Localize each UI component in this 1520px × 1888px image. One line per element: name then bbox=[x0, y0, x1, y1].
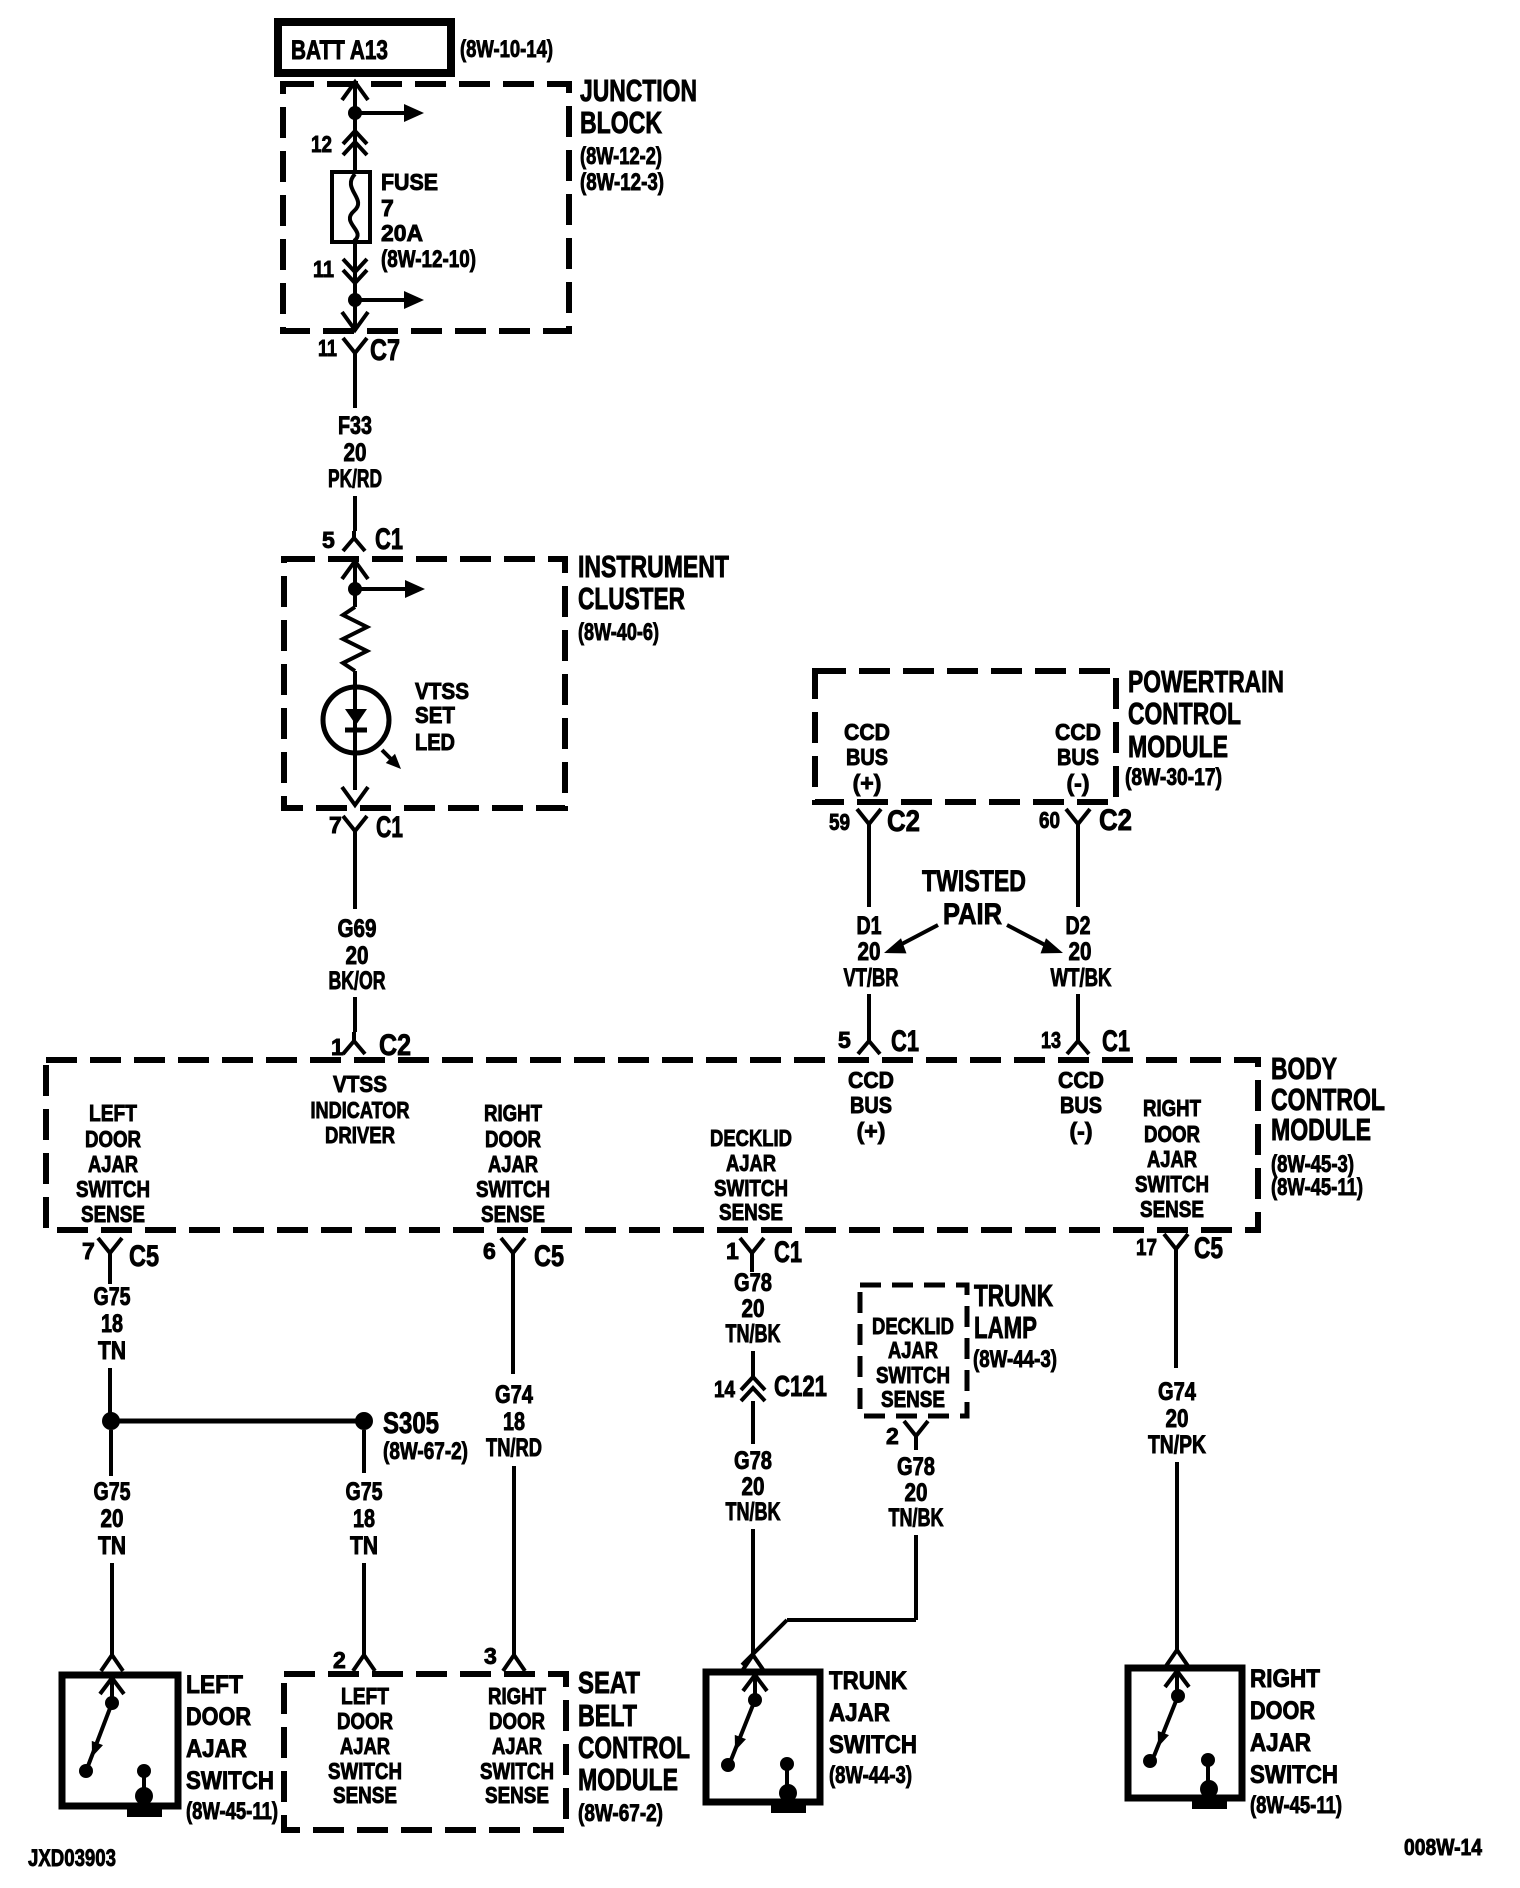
svg-text:RIGHT: RIGHT bbox=[488, 1683, 546, 1709]
svg-text:VTSS: VTSS bbox=[415, 678, 469, 704]
svg-text:SENSE: SENSE bbox=[481, 1201, 545, 1227]
wire label D2 20 WT/BK bbox=[1051, 912, 1112, 992]
svg-text:BATT A13: BATT A13 bbox=[291, 35, 388, 65]
svg-text:G75: G75 bbox=[94, 1478, 131, 1506]
svg-text:5: 5 bbox=[322, 527, 335, 553]
svg-text:RIGHT: RIGHT bbox=[484, 1100, 542, 1126]
svg-text:AJAR: AJAR bbox=[88, 1151, 138, 1177]
svg-text:C7: C7 bbox=[370, 334, 400, 367]
arrow into instrument cluster bbox=[342, 561, 368, 579]
svg-text:60: 60 bbox=[1039, 807, 1060, 833]
wire G74 20 upper segment bbox=[1174, 1266, 1178, 1368]
svg-text:BODY: BODY bbox=[1271, 1051, 1337, 1086]
trunk switch stub wire bbox=[753, 1675, 757, 1697]
svg-text:7: 7 bbox=[381, 195, 394, 221]
left door switch lower contact dot bbox=[79, 1764, 93, 1778]
svg-text:DRIVER: DRIVER bbox=[325, 1122, 395, 1148]
svg-text:(8W-12-10): (8W-12-10) bbox=[381, 246, 476, 273]
wire G78 lamp branch vertical bbox=[914, 1535, 918, 1620]
svg-text:WT/BK: WT/BK bbox=[1051, 964, 1112, 992]
svg-text:C1: C1 bbox=[1102, 1025, 1130, 1058]
svg-text:3: 3 bbox=[484, 1643, 497, 1669]
connector chevrons pin 12 bbox=[343, 131, 367, 144]
svg-text:BUS: BUS bbox=[1057, 744, 1099, 770]
trunk switch lower contact dot bbox=[721, 1758, 735, 1772]
svg-text:008W-14: 008W-14 bbox=[1404, 1834, 1482, 1860]
connector fork at right door ajar switch bbox=[1166, 1650, 1188, 1666]
svg-text:TN: TN bbox=[98, 1532, 126, 1560]
svg-text:G78: G78 bbox=[734, 1447, 772, 1475]
wire node to resistor bbox=[353, 589, 357, 607]
svg-text:DECKLID: DECKLID bbox=[872, 1313, 954, 1339]
wire label D1 20 VT/BR bbox=[844, 912, 899, 992]
svg-text:AJAR: AJAR bbox=[340, 1733, 390, 1759]
wire G74 18 lower segment bbox=[512, 1466, 516, 1655]
svg-text:CONTROL: CONTROL bbox=[1128, 696, 1241, 731]
wire segment to C121 bbox=[751, 1351, 755, 1377]
right door switch stub wire bbox=[1175, 1671, 1179, 1693]
svg-text:VTSS: VTSS bbox=[333, 1071, 387, 1097]
svg-text:C121: C121 bbox=[774, 1371, 827, 1403]
branch arrow right (bottom) bbox=[355, 298, 406, 302]
resistor (cluster dropping resistor) bbox=[343, 607, 367, 671]
arrow out of junction block bbox=[342, 312, 368, 330]
left door switch ground dot bbox=[135, 1787, 153, 1805]
wire label G78 20 TN/BK (upper) bbox=[726, 1269, 781, 1348]
arrow into BATT A13 bbox=[342, 82, 368, 100]
fuse F7 box bbox=[332, 172, 370, 242]
wire G74 18 upper segment bbox=[511, 1270, 515, 1374]
trunk switch common contact dot bbox=[748, 1693, 762, 1707]
splice bus wire to S305 bbox=[119, 1419, 356, 1424]
wire from BATT A13 into junction block bbox=[353, 86, 357, 112]
right door ajar switch name label bbox=[1250, 1665, 1342, 1819]
svg-text:AJAR: AJAR bbox=[492, 1733, 542, 1759]
svg-text:CCD: CCD bbox=[1055, 719, 1101, 745]
branch arrow right in instrument cluster bbox=[355, 587, 407, 591]
wire G75 18 to splice bbox=[108, 1368, 112, 1413]
svg-text:AJAR: AJAR bbox=[726, 1150, 776, 1176]
wire D1 upper segment bbox=[867, 843, 871, 907]
connector pin 2 trunk lamp bbox=[886, 1421, 928, 1450]
trunk switch output contact dot bbox=[780, 1757, 794, 1771]
svg-text:SWITCH: SWITCH bbox=[480, 1758, 554, 1784]
trunk switch lever bbox=[731, 1700, 755, 1760]
wire G75 18 lower segment (S305 branch) bbox=[362, 1563, 366, 1655]
trunk lamp internal label DECKLID AJAR SWITCH SENSE bbox=[872, 1313, 954, 1412]
junction block name label bbox=[580, 73, 697, 196]
svg-text:20: 20 bbox=[1166, 1405, 1189, 1433]
svg-text:(+): (+) bbox=[857, 1118, 886, 1144]
BCM internal label RIGHT DOOR AJAR SWITCH SENSE (right) bbox=[1135, 1095, 1209, 1222]
svg-text:C5: C5 bbox=[534, 1240, 564, 1273]
wire G75 18 upper segment bbox=[108, 1270, 112, 1284]
wire label G75 18 TN (S305 branch) bbox=[346, 1478, 383, 1560]
svg-text:SWITCH: SWITCH bbox=[186, 1767, 274, 1795]
svg-text:SWITCH: SWITCH bbox=[328, 1758, 402, 1784]
wire label G74 20 TN/PK bbox=[1148, 1378, 1206, 1459]
seat belt control module name label bbox=[578, 1665, 690, 1827]
BCM internal label LEFT DOOR AJAR SWITCH SENSE bbox=[76, 1100, 150, 1227]
svg-text:SWITCH: SWITCH bbox=[476, 1176, 550, 1202]
svg-text:MODULE: MODULE bbox=[1271, 1112, 1371, 1147]
BCM internal label CCD BUS (+) bbox=[848, 1067, 894, 1144]
powertrain control module name label bbox=[1125, 664, 1284, 791]
svg-text:11: 11 bbox=[313, 256, 334, 282]
wire D1 lower segment bbox=[867, 994, 871, 1030]
svg-text:(8W-45-11): (8W-45-11) bbox=[186, 1798, 278, 1825]
svg-text:CCD: CCD bbox=[1058, 1067, 1104, 1093]
trunk switch ground dot bbox=[779, 1784, 797, 1802]
svg-text:(8W-30-17): (8W-30-17) bbox=[1125, 764, 1222, 791]
svg-text:AJAR: AJAR bbox=[829, 1699, 890, 1727]
svg-text:C2: C2 bbox=[887, 805, 920, 838]
body control module name label bbox=[1271, 1051, 1385, 1201]
arrow into right door ajar switch bbox=[1165, 1671, 1189, 1687]
svg-text:(8W-44-3): (8W-44-3) bbox=[973, 1346, 1057, 1373]
svg-text:BK/OR: BK/OR bbox=[329, 967, 386, 995]
LED cathode bar bbox=[345, 728, 367, 733]
connector C1 pin 5 (BCM CCD+) bbox=[838, 1025, 919, 1058]
svg-text:SEAT: SEAT bbox=[578, 1665, 640, 1700]
wire label G69 20 BK/OR bbox=[329, 915, 386, 995]
svg-text:S305: S305 bbox=[383, 1407, 439, 1440]
wire D2 lower segment bbox=[1076, 994, 1080, 1030]
svg-text:VT/BR: VT/BR bbox=[844, 964, 899, 992]
svg-text:BUS: BUS bbox=[1060, 1092, 1102, 1118]
twisted pair pointer arrow right bbox=[1007, 925, 1047, 946]
BCM internal label DECKLID AJAR SWITCH SENSE bbox=[710, 1125, 792, 1225]
connector C121 pin 14 bbox=[714, 1371, 827, 1403]
svg-text:SENSE: SENSE bbox=[81, 1201, 145, 1227]
svg-text:C1: C1 bbox=[376, 811, 403, 844]
svg-text:TN/PK: TN/PK bbox=[1148, 1431, 1206, 1459]
svg-text:POWERTRAIN: POWERTRAIN bbox=[1128, 664, 1284, 699]
wire G75 20 lower segment bbox=[110, 1563, 114, 1655]
svg-text:TRUNK: TRUNK bbox=[974, 1278, 1053, 1313]
svg-text:BELT: BELT bbox=[578, 1698, 637, 1733]
LED diode triangle bbox=[345, 709, 367, 725]
right door switch ground lead bbox=[1206, 1760, 1210, 1785]
svg-text:G74: G74 bbox=[1158, 1378, 1196, 1406]
connector C5 pin 7 bbox=[82, 1238, 159, 1273]
trunk ajar switch box bbox=[706, 1672, 820, 1802]
svg-text:TN/RD: TN/RD bbox=[486, 1434, 542, 1462]
connector C5 pin 6 bbox=[483, 1238, 564, 1273]
svg-text:BUS: BUS bbox=[846, 744, 888, 770]
arrow into trunk ajar switch bbox=[743, 1675, 767, 1691]
trunk ajar switch name label bbox=[829, 1667, 917, 1789]
svg-text:SENSE: SENSE bbox=[881, 1386, 945, 1412]
connector fork at left door ajar switch bbox=[101, 1655, 123, 1671]
svg-text:(+): (+) bbox=[853, 770, 882, 796]
right door ajar switch box bbox=[1128, 1668, 1242, 1798]
left door switch common contact dot bbox=[105, 1696, 119, 1710]
svg-text:AJAR: AJAR bbox=[186, 1735, 247, 1763]
svg-text:SWITCH: SWITCH bbox=[1250, 1761, 1338, 1789]
svg-text:(-): (-) bbox=[1070, 1118, 1093, 1144]
wire G75 18 from S305 upper segment bbox=[362, 1430, 366, 1473]
svg-text:TWISTED: TWISTED bbox=[922, 865, 1026, 898]
svg-text:SENSE: SENSE bbox=[1140, 1196, 1204, 1222]
svg-text:LEFT: LEFT bbox=[186, 1671, 243, 1699]
wire label F33 20 PK/RD bbox=[328, 412, 382, 493]
instrument cluster module box bbox=[284, 559, 565, 808]
wire G78 lamp branch diagonal to trunk switch bbox=[742, 1620, 787, 1665]
instrument cluster name label bbox=[578, 549, 729, 646]
svg-text:20: 20 bbox=[742, 1295, 765, 1323]
svg-text:JXD03903: JXD03903 bbox=[28, 1845, 116, 1872]
fuse value label FUSE 7 20A (8W-12-10) bbox=[381, 169, 476, 273]
svg-text:F33: F33 bbox=[338, 412, 372, 440]
svg-text:C2: C2 bbox=[1099, 804, 1132, 837]
svg-text:LED: LED bbox=[415, 729, 455, 755]
connector C1 pin 1 bbox=[726, 1236, 802, 1270]
svg-text:AJAR: AJAR bbox=[1147, 1146, 1197, 1172]
wire resistor to LED bbox=[353, 671, 357, 790]
svg-text:(8W-67-2): (8W-67-2) bbox=[383, 1438, 468, 1465]
trunk lamp name label bbox=[973, 1278, 1057, 1373]
svg-text:SWITCH: SWITCH bbox=[76, 1176, 150, 1202]
svg-text:20: 20 bbox=[344, 439, 367, 467]
LED label VTSS SET LED bbox=[415, 678, 469, 755]
left door ajar switch box bbox=[62, 1675, 178, 1806]
svg-text:DOOR: DOOR bbox=[186, 1703, 251, 1731]
PCM internal label CCD BUS (-) bbox=[1055, 719, 1101, 796]
svg-text:SWITCH: SWITCH bbox=[829, 1731, 917, 1759]
svg-text:14: 14 bbox=[714, 1376, 735, 1402]
svg-text:C1: C1 bbox=[891, 1025, 919, 1058]
svg-text:(8W-40-6): (8W-40-6) bbox=[578, 619, 659, 646]
svg-text:SWITCH: SWITCH bbox=[1135, 1171, 1209, 1197]
wire G78 to trunk ajar switch bbox=[751, 1529, 755, 1655]
power source box BATT A13 bbox=[278, 22, 451, 73]
svg-text:20: 20 bbox=[101, 1505, 124, 1533]
svg-text:11: 11 bbox=[318, 335, 337, 361]
svg-text:5: 5 bbox=[838, 1027, 851, 1053]
wire G78 upper segment (pin1 C1) bbox=[750, 1270, 754, 1272]
wire G78 lamp branch horizontal bbox=[787, 1618, 916, 1622]
connector C1 pin 13 (BCM CCD-) bbox=[1041, 1025, 1130, 1058]
svg-text:TN: TN bbox=[98, 1337, 126, 1365]
connector chevrons pin 11 bbox=[343, 259, 367, 272]
svg-text:(8W-67-2): (8W-67-2) bbox=[578, 1800, 663, 1827]
left door ajar switch name label bbox=[186, 1671, 278, 1825]
arrow out of instrument cluster bbox=[342, 787, 368, 805]
wire G74 20 lower segment bbox=[1175, 1462, 1179, 1650]
connector C2 pin 59 bbox=[829, 805, 920, 843]
svg-text:20: 20 bbox=[346, 942, 369, 970]
left door switch stub wire bbox=[110, 1678, 114, 1700]
splice S305 dot bbox=[355, 1412, 373, 1430]
svg-text:SWITCH: SWITCH bbox=[876, 1362, 950, 1388]
svg-text:MODULE: MODULE bbox=[578, 1762, 678, 1797]
svg-text:MODULE: MODULE bbox=[1128, 729, 1228, 764]
svg-text:LEFT: LEFT bbox=[341, 1683, 389, 1709]
wire label G78 20 TN/BK (middle) bbox=[726, 1447, 781, 1526]
splice node dot left bbox=[102, 1412, 120, 1430]
svg-text:D2: D2 bbox=[1066, 912, 1091, 940]
svg-text:G75: G75 bbox=[94, 1283, 131, 1311]
wire G69 lower segment bbox=[353, 997, 357, 1032]
connector C2 pin 60 bbox=[1039, 804, 1132, 843]
svg-text:CCD: CCD bbox=[848, 1067, 894, 1093]
svg-text:BUS: BUS bbox=[850, 1092, 892, 1118]
svg-text:JUNCTION: JUNCTION bbox=[580, 73, 697, 108]
junction block module box bbox=[283, 84, 569, 331]
svg-text:17: 17 bbox=[1136, 1234, 1157, 1260]
node splice dot in junction block (bottom) bbox=[348, 293, 362, 307]
svg-text:20: 20 bbox=[1069, 938, 1092, 966]
connector C1 pin 7 bbox=[329, 811, 403, 848]
svg-text:INSTRUMENT: INSTRUMENT bbox=[578, 549, 729, 584]
svg-text:(8W-45-11): (8W-45-11) bbox=[1250, 1792, 1342, 1819]
svg-text:DOOR: DOOR bbox=[85, 1126, 141, 1152]
svg-text:SENSE: SENSE bbox=[719, 1199, 783, 1225]
svg-text:AJAR: AJAR bbox=[488, 1151, 538, 1177]
wire label G75 20 TN bbox=[94, 1478, 131, 1560]
svg-text:DOOR: DOOR bbox=[489, 1708, 545, 1734]
svg-text:D1: D1 bbox=[857, 912, 882, 940]
svg-text:DOOR: DOOR bbox=[1250, 1697, 1315, 1725]
wire junction dot to fuse bbox=[353, 113, 357, 172]
svg-text:C5: C5 bbox=[1194, 1232, 1223, 1265]
trunk lamp module box (decklid ajar switch sense) bbox=[860, 1285, 967, 1416]
svg-text:6: 6 bbox=[483, 1238, 496, 1264]
connector fork pin 2 seat belt module bbox=[333, 1647, 375, 1673]
left door switch ground lead bbox=[142, 1771, 146, 1793]
svg-text:SENSE: SENSE bbox=[333, 1782, 397, 1808]
svg-text:G69: G69 bbox=[338, 915, 377, 943]
BCM internal label RIGHT DOOR AJAR SWITCH SENSE (left) bbox=[476, 1100, 550, 1227]
twisted pair pointer arrow left bbox=[898, 925, 938, 946]
svg-text:G74: G74 bbox=[495, 1381, 533, 1409]
fuse F7 element wavy line bbox=[350, 174, 358, 241]
ground bar (left door switch) bbox=[127, 1809, 162, 1817]
LED light emission arrow bbox=[382, 750, 393, 761]
wire entry to node bbox=[353, 561, 357, 589]
svg-text:CCD: CCD bbox=[844, 719, 890, 745]
svg-text:1: 1 bbox=[331, 1034, 344, 1060]
svg-text:C5: C5 bbox=[129, 1240, 159, 1273]
svg-text:SWITCH: SWITCH bbox=[714, 1175, 788, 1201]
connector fork at trunk ajar switch bbox=[742, 1655, 764, 1671]
svg-text:1: 1 bbox=[726, 1238, 739, 1264]
svg-text:20: 20 bbox=[742, 1473, 765, 1501]
left door switch output contact dot bbox=[137, 1764, 151, 1778]
wire F33 upper segment bbox=[353, 370, 357, 408]
svg-text:LAMP: LAMP bbox=[974, 1310, 1037, 1345]
svg-text:LEFT: LEFT bbox=[89, 1100, 137, 1126]
BCM internal label VTSS INDICATOR DRIVER bbox=[311, 1071, 410, 1148]
svg-text:FUSE: FUSE bbox=[381, 169, 438, 195]
VTSS SET LED circle bbox=[323, 687, 389, 753]
PCM internal label CCD BUS (+) bbox=[844, 719, 890, 796]
svg-text:59: 59 bbox=[829, 809, 850, 835]
svg-text:AJAR: AJAR bbox=[1250, 1729, 1311, 1757]
body control module box bbox=[46, 1060, 1258, 1230]
svg-text:(-): (-) bbox=[1067, 770, 1090, 796]
branch arrow right (top) bbox=[355, 111, 406, 115]
node splice dot in junction block (top) bbox=[348, 106, 362, 120]
TWISTED PAIR note bbox=[922, 865, 1026, 931]
wire D2 upper segment bbox=[1076, 843, 1080, 907]
svg-text:SENSE: SENSE bbox=[485, 1782, 549, 1808]
connector fork pin 3 seat belt module bbox=[484, 1643, 525, 1671]
svg-text:(8W-44-3): (8W-44-3) bbox=[829, 1762, 912, 1789]
wire G69 upper segment bbox=[353, 848, 357, 909]
wire F33 lower segment bbox=[353, 496, 357, 531]
svg-text:TN/BK: TN/BK bbox=[726, 1498, 781, 1526]
connector C2 pin 1 (body control module) bbox=[331, 1029, 411, 1062]
svg-text:RIGHT: RIGHT bbox=[1143, 1095, 1201, 1121]
right door switch output contact dot bbox=[1201, 1753, 1215, 1767]
svg-text:(8W-12-2): (8W-12-2) bbox=[580, 143, 662, 170]
svg-text:(8W-12-3): (8W-12-3) bbox=[580, 169, 664, 196]
svg-text:INDICATOR: INDICATOR bbox=[311, 1097, 410, 1123]
trunk switch ground lead bbox=[785, 1764, 789, 1789]
svg-text:CONTROL: CONTROL bbox=[578, 1730, 690, 1765]
svg-text:2: 2 bbox=[886, 1423, 899, 1449]
svg-text:20: 20 bbox=[858, 938, 881, 966]
svg-text:2: 2 bbox=[333, 1647, 346, 1673]
wire label G78 20 TN/BK (lamp branch) bbox=[889, 1453, 944, 1532]
right door switch ground dot bbox=[1200, 1780, 1218, 1798]
svg-text:TN/BK: TN/BK bbox=[889, 1504, 944, 1532]
splice S305 label bbox=[383, 1407, 468, 1465]
arrow into left door ajar switch bbox=[100, 1678, 124, 1694]
svg-text:PAIR: PAIR bbox=[943, 898, 1002, 931]
svg-text:DOOR: DOOR bbox=[1144, 1121, 1200, 1147]
svg-text:7: 7 bbox=[82, 1238, 95, 1264]
svg-text:(8W-45-11): (8W-45-11) bbox=[1271, 1174, 1363, 1201]
seat belt control module box bbox=[284, 1674, 566, 1830]
svg-text:G78: G78 bbox=[897, 1453, 935, 1481]
left door switch lever bbox=[88, 1703, 112, 1766]
wire label G74 18 TN/RD bbox=[486, 1381, 542, 1462]
wire G75 20 upper segment bbox=[109, 1430, 113, 1476]
svg-text:SET: SET bbox=[415, 702, 455, 728]
svg-text:12: 12 bbox=[311, 131, 332, 157]
svg-text:CLUSTER: CLUSTER bbox=[578, 581, 685, 616]
ground bar (right door switch) bbox=[1192, 1801, 1227, 1809]
ground bar (trunk switch) bbox=[771, 1805, 806, 1813]
svg-text:18: 18 bbox=[353, 1505, 375, 1533]
svg-text:20A: 20A bbox=[381, 220, 423, 246]
svg-text:C1: C1 bbox=[774, 1236, 802, 1269]
wire label G75 18 TN bbox=[94, 1283, 131, 1365]
connector C7 pin 11 bbox=[318, 334, 400, 370]
node splice dot in instrument cluster bbox=[348, 582, 362, 596]
BCM internal label CCD BUS (-) bbox=[1058, 1067, 1104, 1144]
seat belt module internal label RIGHT DOOR AJAR SWITCH SENSE bbox=[480, 1683, 554, 1808]
wire exiting junction block bbox=[353, 300, 357, 331]
svg-text:PK/RD: PK/RD bbox=[328, 465, 382, 493]
svg-text:BLOCK: BLOCK bbox=[580, 105, 662, 140]
svg-text:18: 18 bbox=[503, 1408, 525, 1436]
svg-text:DOOR: DOOR bbox=[485, 1126, 541, 1152]
svg-text:DOOR: DOOR bbox=[337, 1708, 393, 1734]
svg-text:(8W-10-14): (8W-10-14) bbox=[460, 36, 553, 63]
svg-text:18: 18 bbox=[101, 1310, 123, 1338]
svg-text:7: 7 bbox=[329, 812, 342, 838]
svg-text:C1: C1 bbox=[375, 523, 403, 556]
seat belt module internal label LEFT DOOR AJAR SWITCH SENSE bbox=[328, 1683, 402, 1808]
connector C1 pin 5 (instrument cluster) bbox=[322, 523, 403, 556]
svg-text:G75: G75 bbox=[346, 1478, 383, 1506]
svg-text:RIGHT: RIGHT bbox=[1250, 1665, 1320, 1693]
svg-text:20: 20 bbox=[905, 1479, 928, 1507]
